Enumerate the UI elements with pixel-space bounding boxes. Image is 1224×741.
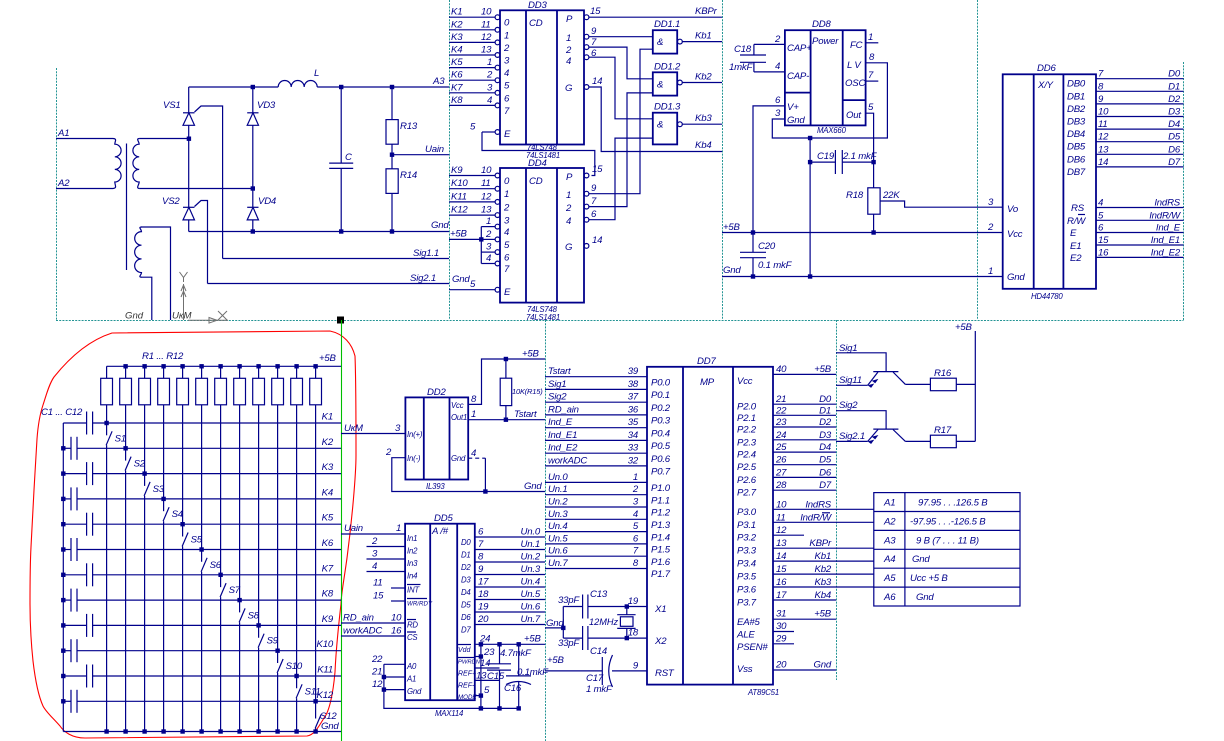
wire IndRS from DD7 pin 10 P3.0 <box>737 499 874 518</box>
wire top rail left part <box>189 86 279 88</box>
svg-text:IndR/W: IndR/W <box>1149 210 1181 221</box>
svg-text:P0.0: P0.0 <box>651 377 671 388</box>
wire MODE pin 5 tie <box>458 685 490 701</box>
svg-text:In3: In3 <box>407 559 418 568</box>
output P of DD4 pin 15 <box>566 164 603 183</box>
wire Ind_E to DD7 pin 35 P0.4 <box>545 417 670 439</box>
svg-text:1 mkF: 1 mkF <box>586 684 613 695</box>
wire secondary1 bottom to VD column <box>140 188 253 190</box>
priority encoder DD4 <box>500 168 584 303</box>
svg-text:A1: A1 <box>406 675 416 684</box>
svg-text:Gnd: Gnd <box>1007 272 1025 283</box>
svg-text:Un.6: Un.6 <box>521 602 541 613</box>
svg-text:Gnd: Gnd <box>916 592 934 603</box>
svg-text:Gnd: Gnd <box>407 687 422 696</box>
svg-text:REF+: REF+ <box>458 671 476 678</box>
label Sig11 <box>839 375 862 386</box>
svg-text:In2: In2 <box>407 547 418 556</box>
junction dots power section <box>187 85 394 234</box>
svg-text:Un.4: Un.4 <box>548 521 567 532</box>
svg-text:2: 2 <box>371 536 378 547</box>
svg-text:In(+): In(+) <box>407 430 423 439</box>
svg-text:D7: D7 <box>461 626 471 635</box>
svg-text:2: 2 <box>774 34 781 45</box>
priority encoder DD3 <box>500 10 584 144</box>
svg-text:16: 16 <box>776 577 787 588</box>
wire +5B keyboard rail <box>107 365 341 367</box>
microcontroller section DD7 <box>545 356 874 697</box>
svg-text:Un.3: Un.3 <box>548 509 568 520</box>
svg-text:RS: RS <box>1071 203 1085 214</box>
svg-text:R14: R14 <box>400 170 417 181</box>
label RD (DD5) <box>407 620 418 630</box>
stub DD5 pin 15 WR/RDY <box>373 591 405 602</box>
label S3 <box>153 484 165 495</box>
wire IndRS to DD6 pin 4 (RS) <box>1096 198 1184 209</box>
svg-text:7: 7 <box>504 264 510 275</box>
wire RST pin 9 with +5B <box>545 655 675 679</box>
wire IndR/W to DD6 pin 5 (R/W) <box>1096 210 1184 221</box>
svg-text:Out: Out <box>846 110 861 121</box>
wire Kb3 from DD7 pin 16 P3.6 <box>737 577 874 596</box>
svg-text:P0.3: P0.3 <box>651 416 671 427</box>
svg-text:7: 7 <box>633 546 639 557</box>
wire row K8 <box>77 599 341 601</box>
svg-text:5: 5 <box>484 685 490 696</box>
svg-text:4: 4 <box>504 68 509 79</box>
svg-text:11: 11 <box>481 19 491 30</box>
label S10 <box>286 661 303 672</box>
svg-text:R13: R13 <box>400 121 418 132</box>
svg-text:P1.3: P1.3 <box>651 520 671 531</box>
svg-text:8: 8 <box>869 52 875 63</box>
svg-text:K3: K3 <box>322 462 334 473</box>
wire Un.3 from DD5 pin 9 D3 <box>461 564 545 585</box>
svg-text:33pF: 33pF <box>558 638 580 649</box>
svg-text:C13: C13 <box>590 589 608 600</box>
label L <box>314 68 319 79</box>
svg-text:P3.6: P3.6 <box>737 585 757 596</box>
svg-text:KBPr: KBPr <box>809 538 832 549</box>
label R17 <box>934 425 952 436</box>
label K10 <box>317 639 334 650</box>
svg-text:Ind_E2: Ind_E2 <box>548 443 578 454</box>
svg-text:+5B: +5B <box>814 364 832 375</box>
svg-text:+5B: +5B <box>723 222 741 233</box>
wire VS2 gate to Sig2.1 <box>195 201 208 284</box>
transistor VT2 (Sig2) <box>836 411 905 444</box>
svg-text:A3: A3 <box>883 535 896 546</box>
wire row K2 <box>77 447 341 449</box>
svg-text:Un.1: Un.1 <box>521 539 540 550</box>
capacitor C6 <box>63 538 77 561</box>
svg-text:P3.7: P3.7 <box>737 598 757 609</box>
table row A6 <box>883 592 934 603</box>
resistor R16 <box>905 378 975 391</box>
svg-text:1: 1 <box>633 472 638 483</box>
svg-text:G: G <box>565 83 573 94</box>
svg-text:16: 16 <box>391 626 402 637</box>
svg-text:&: & <box>657 37 663 48</box>
wire Un.5 from DD5 pin 18 D5 <box>461 589 545 610</box>
svg-text:P2.3: P2.3 <box>737 437 757 448</box>
label 22K <box>882 190 900 201</box>
svg-text:S9: S9 <box>267 636 279 647</box>
label Gnd (DD2) <box>451 454 466 463</box>
label +5B (driver rail) <box>955 322 973 333</box>
label X/Y <box>1037 80 1054 91</box>
label K5 <box>322 513 334 524</box>
transformer T1 secondary 2 winding <box>135 227 142 277</box>
wire X1 pin 19 <box>588 596 666 615</box>
svg-text:A2: A2 <box>883 517 896 528</box>
svg-text:MP: MP <box>700 377 715 388</box>
label DB1 <box>1067 91 1085 102</box>
svg-text:Gnd: Gnd <box>546 618 564 629</box>
wire Ind_E1 to DD6 pin 15 (E1) <box>1096 235 1184 246</box>
svg-text:Vss: Vss <box>737 664 753 675</box>
IC DD8 MAX660 <box>785 30 866 125</box>
capacitor C9 <box>63 614 92 637</box>
resistor R18 <box>868 188 880 233</box>
wire +5B to EA pin 31 <box>737 609 836 628</box>
label A0 (DD5) <box>406 662 417 671</box>
capacitor C15 <box>487 642 511 711</box>
svg-text:REF-: REF- <box>458 683 475 690</box>
svg-text:8: 8 <box>471 394 477 405</box>
wire K3 input to DD3 pin 12 <box>449 32 510 54</box>
svg-text:1: 1 <box>504 30 509 41</box>
svg-text:Gnd: Gnd <box>912 554 930 565</box>
wire REF- pin 13 <box>458 670 500 689</box>
label 74LS1481 (DD3 type2) <box>526 151 560 160</box>
svg-text:P2.5: P2.5 <box>737 462 757 473</box>
svg-text:IL393: IL393 <box>426 482 445 491</box>
svg-text:VS1: VS1 <box>163 100 181 111</box>
svg-text:1: 1 <box>988 266 993 277</box>
svg-text:K12: K12 <box>317 690 334 701</box>
svg-text:6: 6 <box>478 527 484 538</box>
wire Un.2 from DD5 pin 8 D2 <box>461 552 545 573</box>
svg-text:Out1: Out1 <box>451 413 467 422</box>
svg-text:S7: S7 <box>229 585 241 596</box>
label C1 ... C12 <box>41 407 83 418</box>
output G of DD4 pin 14 (n.c.) <box>565 235 602 253</box>
svg-text:Kb2: Kb2 <box>695 72 712 83</box>
keyboard matrix section <box>30 317 356 741</box>
svg-text:D1: D1 <box>819 405 831 416</box>
label Out1 <box>451 413 467 422</box>
label K7 <box>322 563 334 574</box>
wire Kb2 from DD7 pin 15 P3.5 <box>737 564 874 583</box>
svg-text:P2.6: P2.6 <box>737 475 757 486</box>
svg-text:Un.0: Un.0 <box>548 472 568 483</box>
capacitor C13 <box>563 595 588 619</box>
svg-text:Sig2: Sig2 <box>548 392 567 403</box>
svg-text:12: 12 <box>481 191 492 202</box>
label K6 <box>322 538 334 549</box>
svg-text:6: 6 <box>775 95 781 106</box>
label INT (DD5) <box>407 585 421 595</box>
wires DD5 pins 22,21,12 A0 A1 Gnd to ground bus <box>371 654 519 709</box>
svg-text:15: 15 <box>590 6 601 17</box>
svg-text:DD8: DD8 <box>812 19 831 30</box>
svg-text:17: 17 <box>478 577 489 588</box>
svg-text:Un.0: Un.0 <box>521 527 541 538</box>
wire Un.7 from DD5 pin 20 D7 <box>461 614 545 635</box>
svg-text:12: 12 <box>776 525 787 536</box>
svg-text:L V: L V <box>847 60 862 71</box>
svg-text:27: 27 <box>775 467 787 478</box>
svg-text:S12: S12 <box>320 711 337 722</box>
XY axis marker <box>180 272 229 323</box>
label CAP+ <box>787 43 812 54</box>
stub PSEN# pin 29 <box>737 633 794 653</box>
capacitor C <box>329 87 353 232</box>
svg-text:22: 22 <box>775 405 787 416</box>
svg-text:In1: In1 <box>407 534 417 543</box>
pin 7 stub OSC <box>866 70 879 81</box>
svg-text:K11: K11 <box>451 191 467 202</box>
inductor L <box>278 81 317 88</box>
label R14 <box>400 170 417 181</box>
capacitor C11 <box>63 665 92 688</box>
svg-text:Un.7: Un.7 <box>521 614 541 625</box>
svg-text:P3.0: P3.0 <box>737 507 757 518</box>
transformer T1 secondary 1 winding <box>133 139 140 189</box>
svg-text:18: 18 <box>478 589 489 600</box>
crystal ZQ 12MHz <box>617 604 635 640</box>
label DD4 <box>528 158 547 169</box>
stub DD5 pin 2 In2 <box>367 536 406 547</box>
svg-text:L: L <box>314 68 319 79</box>
label DB0 <box>1067 79 1086 90</box>
label Sig1 <box>839 343 857 354</box>
svg-text:Un.2: Un.2 <box>521 552 541 563</box>
label C19 <box>817 151 835 162</box>
label Vo <box>1007 204 1019 215</box>
svg-text:RD_ain: RD_ain <box>343 613 374 624</box>
svg-text:A5: A5 <box>883 573 896 584</box>
label 1mkF <box>729 62 754 73</box>
svg-text:33: 33 <box>628 443 639 454</box>
label C20 <box>758 241 776 252</box>
wire +5B vertical driver rail <box>974 331 976 441</box>
svg-text:P1.7: P1.7 <box>651 569 671 580</box>
wire workADC to DD5 pin 16 CS <box>341 626 405 637</box>
wire row K7 <box>93 574 341 576</box>
wire D6 from DD7 pin 27 P2.6 <box>737 467 836 486</box>
svg-text:K5: K5 <box>451 57 463 68</box>
svg-text:E: E <box>504 287 511 298</box>
svg-text:12: 12 <box>481 32 492 43</box>
svg-text:C15: C15 <box>487 671 505 682</box>
svg-text:1: 1 <box>487 57 492 68</box>
pin 2 wire CAP+ <box>754 34 785 45</box>
label K3 <box>322 462 334 473</box>
svg-text:31: 31 <box>776 609 786 620</box>
svg-text:D3: D3 <box>461 576 471 585</box>
svg-text:22: 22 <box>371 654 383 665</box>
svg-text:5: 5 <box>470 279 476 290</box>
label K4 <box>322 487 333 498</box>
AND gate DD1.2 <box>653 61 683 95</box>
svg-text:D4: D4 <box>461 588 471 597</box>
wire row K6 <box>77 549 341 551</box>
svg-text:CAP+: CAP+ <box>787 43 812 54</box>
label AT89C51 <box>747 688 779 697</box>
svg-text:A4: A4 <box>883 554 895 565</box>
ADC section DD5 <box>341 513 545 718</box>
svg-text:Gnd: Gnd <box>431 220 449 231</box>
wire DD2 pin 2 In- to ground rail <box>385 447 545 492</box>
svg-text:P3.1: P3.1 <box>737 520 756 531</box>
label E <box>1070 228 1077 239</box>
svg-text:K2: K2 <box>451 19 463 30</box>
capacitor C12 <box>63 690 77 713</box>
svg-text:Ind_E: Ind_E <box>1156 223 1181 234</box>
svg-text:9: 9 <box>633 660 639 671</box>
label A/# <box>431 526 449 537</box>
label CS (DD5) <box>407 632 418 642</box>
svg-text:29: 29 <box>775 633 787 644</box>
label MP <box>700 377 715 388</box>
label +5B (keyboard rail) <box>319 353 337 364</box>
svg-text:K10: K10 <box>317 639 334 650</box>
svg-text:P1.5: P1.5 <box>651 545 671 556</box>
label C13 <box>590 589 608 600</box>
svg-text:A6: A6 <box>883 592 896 603</box>
svg-text:3: 3 <box>504 56 510 67</box>
svg-text:Gnd: Gnd <box>321 721 339 732</box>
svg-text:&: & <box>657 79 663 90</box>
wire Kb4 from DD7 pin 17 P3.7 <box>737 590 836 609</box>
capacitor C17 (polarized) <box>602 655 612 687</box>
svg-text:11: 11 <box>776 512 786 523</box>
svg-text:13: 13 <box>476 670 487 681</box>
svg-text:4: 4 <box>372 561 377 572</box>
svg-text:RD_ain: RD_ain <box>548 404 579 415</box>
svg-text:Un.7: Un.7 <box>548 558 568 569</box>
label Out <box>846 110 861 121</box>
svg-text:FC: FC <box>850 40 863 51</box>
wire IndR/W from DD7 pin 11 P3.1 <box>737 512 874 531</box>
label R/W with overline <box>1067 215 1086 228</box>
svg-text:6: 6 <box>633 533 639 544</box>
svg-text:K12: K12 <box>451 205 468 216</box>
label S2 <box>134 459 146 470</box>
svg-text:3: 3 <box>486 242 492 253</box>
capacitor C18 <box>740 44 766 72</box>
label In(+) <box>407 430 423 439</box>
svg-text:33pF: 33pF <box>558 595 580 606</box>
output 1 of DD3 pin 9 <box>566 26 653 44</box>
wire A1 <box>56 138 113 140</box>
label 12MHz <box>589 617 619 627</box>
svg-text:Vo: Vo <box>1007 204 1019 215</box>
wire Un.6 from DD5 pin 19 D6 <box>461 602 545 623</box>
svg-text:K11: K11 <box>317 665 333 676</box>
resistor R14 <box>386 155 398 232</box>
svg-text:Vcc: Vcc <box>451 401 464 410</box>
table row A1 <box>883 498 988 509</box>
svg-text:+5B: +5B <box>547 655 565 666</box>
svg-text:19: 19 <box>628 596 639 607</box>
IC DD5 MAX114 <box>405 524 475 701</box>
svg-text:Un.3: Un.3 <box>521 564 541 575</box>
svg-text:P3.2: P3.2 <box>737 533 757 544</box>
wire D3 from DD6 pin 10 <box>1096 107 1184 118</box>
wire Kb1 from DD7 pin 14 P3.4 <box>737 551 874 570</box>
svg-text:74LS1481: 74LS1481 <box>526 313 560 322</box>
wire row K9 <box>93 624 341 626</box>
svg-text:13: 13 <box>1098 144 1109 155</box>
svg-text:A2: A2 <box>57 178 70 189</box>
wire D1 from DD7 pin 22 P2.1 <box>737 405 836 424</box>
svg-text:Gnd: Gnd <box>787 115 805 126</box>
output 2 of DD4 pin 7 <box>565 93 653 214</box>
IC DD2 LM393 <box>405 397 468 479</box>
svg-text:C14: C14 <box>590 646 607 657</box>
wire D7 from DD7 pin 28 P2.7 <box>737 480 836 499</box>
svg-text:K6: K6 <box>322 538 334 549</box>
wire K1 input to DD3 pin 10 <box>449 7 510 29</box>
svg-text:P: P <box>566 14 573 25</box>
svg-text:36: 36 <box>628 404 639 415</box>
svg-text:2: 2 <box>503 202 510 213</box>
svg-text:0: 0 <box>504 18 510 29</box>
table row A2 <box>883 517 986 528</box>
svg-text:C: C <box>345 152 352 163</box>
stub ALE pin 30 <box>736 621 794 641</box>
svg-text:10: 10 <box>481 165 492 176</box>
svg-text:30: 30 <box>776 621 787 632</box>
label C <box>345 152 352 163</box>
label S9 <box>267 636 279 647</box>
label MAX660 <box>817 126 847 135</box>
pin E of DD3 (pin 5) wire from DD4 P <box>470 122 595 176</box>
svg-text:P2.7: P2.7 <box>737 488 757 499</box>
svg-text:K7: K7 <box>322 563 334 574</box>
label CAP- <box>787 71 809 82</box>
svg-text:Un.5: Un.5 <box>521 589 541 600</box>
svg-text:P0.5: P0.5 <box>651 441 671 452</box>
svg-text:D6: D6 <box>819 467 832 478</box>
svg-text:7: 7 <box>478 539 484 550</box>
wire Uain to DD5 pin 1 In1 <box>341 523 405 534</box>
wire D5 from DD7 pin 26 P2.5 <box>737 455 836 474</box>
wire tie-down vertical (pins 23,5) <box>479 642 483 711</box>
svg-text:P: P <box>566 172 573 183</box>
svg-text:DB0: DB0 <box>1067 79 1086 90</box>
capacitor C4 <box>63 487 77 510</box>
svg-text:MAX114: MAX114 <box>435 709 464 718</box>
wire Un.4 from DD5 pin 17 D4 <box>461 577 545 598</box>
svg-text:7: 7 <box>1098 69 1104 80</box>
label UkM (bottom left) <box>172 311 191 322</box>
svg-text:P2.2: P2.2 <box>737 425 757 436</box>
wire D6 from DD6 pin 13 <box>1096 144 1184 155</box>
svg-text:4.7mkF: 4.7mkF <box>500 648 532 659</box>
capacitor C3 <box>63 462 92 485</box>
label 4.7mkF <box>500 648 532 659</box>
svg-text:4: 4 <box>487 95 492 106</box>
wire Ind_E1 to DD7 pin 34 P0.5 <box>545 430 671 452</box>
output P of DD3 pin 15 wire KBPr <box>566 6 722 25</box>
wire secondary2 top (UkM) <box>141 227 171 320</box>
wire RD_ain to DD7 pin 36 P0.3 <box>545 404 671 426</box>
capacitor C7 <box>63 563 92 586</box>
